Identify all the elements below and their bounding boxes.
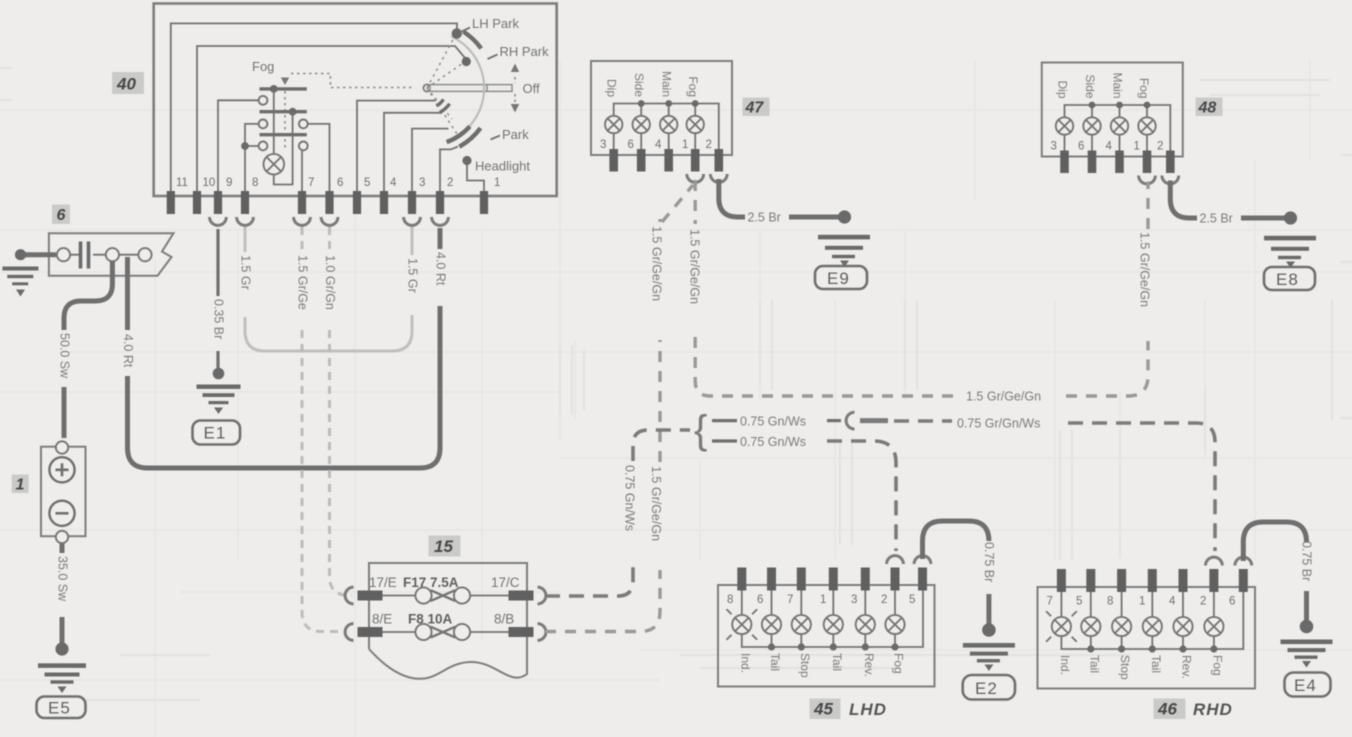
svg-text:4: 4	[1106, 141, 1113, 153]
svg-text:8: 8	[1107, 596, 1113, 608]
svg-text:4: 4	[1169, 596, 1176, 608]
label LHD	[849, 700, 887, 719]
46 indicator lamp rays	[1046, 611, 1077, 642]
wire 1.5 Gr/Ge (pin 7 to fuse 8/E)	[302, 227, 345, 632]
wire pin 11 to LH Park contact	[171, 23, 457, 191]
connector hooks at fuse box	[345, 587, 546, 640]
svg-text:7: 7	[308, 177, 314, 189]
svg-text:Dip: Dip	[1056, 80, 1070, 98]
wire pin 4 to rotary	[384, 113, 442, 191]
svg-text:6: 6	[337, 177, 343, 189]
headlamp cluster 48	[1042, 63, 1183, 157]
svg-text:Headlight: Headlight	[475, 159, 530, 174]
fuse terminal 17/C	[491, 575, 534, 601]
svg-text:1: 1	[1134, 141, 1140, 153]
45 indicator lamp rays	[727, 609, 758, 640]
rotary Off rotation arrows (dotted)	[511, 64, 519, 113]
wire label 4.0 Rt (under pin 2)	[434, 252, 448, 286]
hooks above 46 pins 2,6	[1206, 557, 1252, 565]
47 lamps Dip Side Main Fog	[605, 116, 704, 149]
rotary dotted selector rays	[427, 34, 466, 137]
svg-text:1.5 Gr: 1.5 Gr	[239, 255, 253, 290]
47 lamp function labels	[605, 71, 701, 97]
wire 1.5 Gr (pin 8 to pin 3 loop)	[245, 227, 412, 351]
wire label 1.5 Gr/Ge/Gn (horizontal)	[966, 390, 1041, 404]
svg-text:1: 1	[682, 139, 688, 151]
svg-text:6: 6	[1078, 141, 1084, 153]
svg-text:11: 11	[176, 177, 188, 189]
svg-text:Tail: Tail	[1149, 655, 1163, 673]
45 lamps	[732, 591, 904, 635]
svg-text:5: 5	[364, 177, 370, 189]
wire label 0.35 Br	[212, 299, 226, 339]
svg-text:Fog: Fog	[252, 59, 274, 74]
wire label 0.75 Gn/Ws (riser)	[623, 465, 637, 531]
svg-text:E1: E1	[204, 424, 227, 443]
46 lamp function labels	[1058, 655, 1225, 680]
hooks above 45 pins 2,5	[887, 556, 931, 564]
svg-text:1.5 Gr/Ge/Gn: 1.5 Gr/Ge/Gn	[1138, 232, 1152, 307]
svg-text:Fog: Fog	[1137, 78, 1151, 99]
wire label 0.75 Gn/Ws (lower)	[740, 435, 806, 449]
wire label 0.75 Br (right)	[1300, 541, 1314, 581]
svg-text:50.0 Sw: 50.0 Sw	[58, 333, 72, 379]
svg-text:Dip: Dip	[605, 79, 619, 97]
junction connector on upper branch	[827, 412, 888, 429]
wire label 2.5 Br (right)	[1200, 212, 1233, 226]
wire label 1.5 Gr (right)	[406, 258, 420, 293]
wire label 1.5 Gr/Ge	[296, 255, 310, 310]
wire 0.75 Gn/Ws (fuse 17/C up to brace junction)	[545, 430, 690, 596]
wire pin 1 to Headlight contact	[467, 164, 484, 191]
svg-text:40: 40	[116, 75, 136, 94]
wire pin 10 to RH Park contact	[197, 46, 465, 191]
headlamp cluster 47	[591, 61, 732, 155]
svg-text:Main: Main	[1111, 72, 1125, 98]
svg-text:0.35 Br: 0.35 Br	[212, 299, 226, 339]
label 48	[1196, 98, 1223, 117]
svg-text:3: 3	[600, 139, 606, 151]
wire pin 7 to fog switch	[301, 151, 303, 192]
wire 2.5 Br (47 pin 2 to E9)	[719, 179, 839, 217]
svg-text:7: 7	[787, 594, 793, 606]
svg-text:15: 15	[434, 537, 453, 556]
svg-text:1.5 Gr/Ge/Gn: 1.5 Gr/Ge/Gn	[649, 466, 663, 541]
svg-text:1.5 Gr/Ge/Gn: 1.5 Gr/Ge/Gn	[966, 390, 1041, 404]
fog indicator lamp	[264, 154, 285, 175]
svg-text:LH Park: LH Park	[472, 16, 519, 31]
46 lamps	[1052, 592, 1224, 636]
svg-text:45: 45	[813, 700, 833, 719]
svg-text:2: 2	[1157, 141, 1163, 153]
wire pin 8 to fog switch	[241, 124, 258, 191]
label 1	[12, 475, 29, 494]
svg-text:1.5 Gr/Ge/Gn: 1.5 Gr/Ge/Gn	[650, 226, 664, 301]
connector hooks under switch pins	[210, 217, 449, 225]
fuse terminal 17/E	[358, 575, 397, 601]
46 pin terminals 7 5 8 1 4 2 6	[1057, 569, 1248, 592]
svg-text:6: 6	[57, 207, 66, 224]
switch 40 pin terminals 11..1	[167, 191, 488, 214]
svg-text:7: 7	[1047, 596, 1053, 608]
svg-text:46: 46	[1157, 700, 1177, 719]
svg-text:3: 3	[1051, 141, 1057, 153]
45 pin numbers	[727, 594, 915, 606]
47 pin terminals 3 6 4 1 2	[609, 149, 723, 172]
rotary contact dots	[452, 28, 472, 165]
svg-text:1: 1	[820, 594, 826, 606]
svg-text:6: 6	[628, 139, 634, 151]
48 pin terminals 3 6 4 1 2	[1060, 151, 1174, 174]
wire label 4.0 Rt (left)	[121, 334, 135, 368]
wire label 1.5 Gr (left)	[239, 255, 253, 290]
svg-text:2: 2	[706, 139, 712, 151]
svg-text:1.5 Gr/Ge/Gn: 1.5 Gr/Ge/Gn	[688, 229, 702, 304]
svg-text:3: 3	[851, 594, 857, 606]
svg-text:Ind.: Ind.	[1058, 655, 1072, 675]
svg-text:0.75 Gr/Gn/Ws: 0.75 Gr/Gn/Ws	[957, 417, 1040, 431]
svg-text:Park: Park	[502, 127, 529, 142]
svg-text:F8 10A: F8 10A	[408, 612, 453, 627]
wire pin 5 to rotary	[357, 101, 436, 191]
wire 50.0 Sw	[64, 261, 112, 438]
wire label 1.5 Gr/Ge/Gn (at fuse riser)	[649, 466, 663, 541]
element bars inside 6	[81, 242, 89, 269]
48 pin numbers	[1051, 141, 1164, 153]
svg-text:Off: Off	[523, 81, 540, 96]
wire 1.5 Gr/Ge/Gn (crossover to 48 pin 1)	[1066, 182, 1148, 397]
fuse box 15	[369, 563, 527, 679]
svg-text:1.5 Gr/Ge: 1.5 Gr/Ge	[296, 255, 310, 310]
ground E9	[815, 210, 870, 289]
svg-text:{: {	[694, 408, 707, 452]
svg-text:Rev.: Rev.	[1180, 655, 1194, 679]
svg-text:8/E: 8/E	[372, 612, 392, 627]
rotary dark arc segments	[436, 32, 481, 147]
wire label 1.5 Gr/Ge/Gn (below 47)	[688, 229, 702, 304]
svg-text:E9: E9	[827, 269, 850, 288]
48 internal bus	[1065, 102, 1171, 151]
svg-text:Main: Main	[660, 71, 674, 97]
label 45	[810, 699, 841, 720]
48 lamp function labels	[1056, 72, 1152, 98]
rotary switch pivot and lever (Off position)	[423, 84, 512, 91]
svg-text:8: 8	[252, 177, 258, 189]
light switch 40	[154, 4, 557, 197]
wire 35.0 Sw	[60, 544, 65, 647]
label 6	[52, 205, 70, 225]
svg-text:17/E: 17/E	[369, 575, 397, 590]
wire pin 3 to rotary	[412, 129, 449, 191]
wire label 1.0 Gr/Gn	[323, 255, 337, 310]
wire 1.5 Gr/Ge/Gn (fuse 8/B up to 47 pin 1)	[545, 185, 693, 632]
svg-text:0.75 Gn/Ws: 0.75 Gn/Ws	[740, 435, 806, 449]
46 internal bus to pin 6	[1061, 592, 1243, 653]
rear lamp cluster 46 RHD	[1038, 587, 1256, 689]
wire label 50.0 Sw	[58, 333, 72, 379]
svg-text:Side: Side	[632, 73, 646, 97]
ground E4	[1281, 620, 1333, 697]
svg-text:Tail: Tail	[830, 653, 844, 671]
svg-text:Fog: Fog	[892, 653, 906, 674]
ground E8	[1264, 211, 1316, 290]
svg-text:0.75 Gn/Ws: 0.75 Gn/Ws	[623, 465, 637, 531]
wire 0.75 Gr/Gn/Ws (to 46 pin 2)	[894, 421, 1215, 551]
svg-text:1: 1	[16, 477, 25, 494]
fog switch mechanical dotted link	[281, 74, 412, 151]
hooks under 48 pins 1,2	[1139, 176, 1179, 184]
45 internal bus to pin 5	[742, 591, 923, 651]
svg-text:3: 3	[419, 177, 425, 189]
contact circles inside 6	[57, 248, 152, 261]
svg-text:4: 4	[655, 139, 662, 151]
svg-text:1: 1	[1139, 596, 1145, 608]
wire 0.35 Br (pin 9 to E1)	[216, 229, 219, 369]
svg-text:E5: E5	[48, 699, 71, 718]
47 internal bus	[614, 100, 719, 149]
svg-text:2: 2	[881, 594, 887, 606]
rotary position labels	[460, 16, 550, 174]
45 pin terminals 8 6 7 1 3 2 5	[737, 568, 927, 591]
svg-text:Tail: Tail	[1088, 655, 1102, 673]
fog switch pole wires	[274, 89, 293, 185]
svg-text:LHD: LHD	[849, 700, 887, 719]
wire label 0.75 Br (left)	[982, 542, 996, 582]
fuse terminal 8/E	[358, 612, 393, 638]
svg-text:5: 5	[1076, 596, 1082, 608]
wire 1.0 Gr/Gn (pin 6 to fuse 17/E)	[330, 227, 353, 596]
svg-text:E2: E2	[975, 679, 998, 698]
svg-text:Tail: Tail	[768, 653, 782, 671]
wire label 0.75 Gr/Gn/Ws	[957, 417, 1040, 431]
wire pin 2 to rotary	[440, 147, 458, 192]
fuse F8 10A	[383, 612, 509, 641]
svg-text:E8: E8	[1276, 270, 1299, 289]
fuse F17 7.5A	[383, 575, 509, 604]
svg-text:1: 1	[494, 177, 500, 189]
fog switch label	[252, 59, 274, 74]
svg-text:RH Park: RH Park	[500, 44, 550, 59]
svg-text:8: 8	[727, 594, 733, 606]
wire label 1.5 Gr/Ge/Gn (below 48)	[1138, 232, 1152, 307]
label RHD	[1193, 700, 1233, 719]
wire pin 6 to fog switch	[308, 124, 329, 191]
rotary contact arc (light)	[448, 36, 484, 141]
svg-text:47: 47	[745, 100, 765, 117]
svg-text:F17 7.5A: F17 7.5A	[403, 575, 459, 590]
svg-text:2.5 Br: 2.5 Br	[1200, 212, 1233, 226]
svg-text:17/C: 17/C	[491, 575, 520, 590]
svg-text:2: 2	[1200, 596, 1206, 608]
46 pin numbers	[1047, 596, 1236, 608]
fog switch contact circles	[259, 96, 308, 150]
svg-text:5: 5	[909, 594, 915, 606]
wire 2.5 Br (48 pin 2 to E8)	[1170, 181, 1285, 219]
wire label 0.75 Gn/Ws (upper)	[740, 415, 806, 429]
svg-text:6: 6	[757, 594, 763, 606]
svg-text:E4: E4	[1294, 676, 1317, 695]
ground E2	[963, 623, 1015, 699]
label 46	[1154, 699, 1186, 720]
label 47	[743, 98, 770, 117]
wire 0.75 Gn/Ws (lower branch to 45 pin 2)	[712, 441, 896, 551]
fuse terminal 8/B	[494, 612, 534, 638]
svg-text:48: 48	[1198, 100, 1217, 117]
wire label 1.5 Gr/Ge/Gn (upper riser)	[650, 226, 664, 301]
svg-text:1.5 Gr: 1.5 Gr	[406, 258, 420, 293]
svg-text:Stop: Stop	[798, 653, 812, 678]
wire 6 to ground	[15, 249, 56, 260]
svg-text:Side: Side	[1083, 74, 1097, 98]
svg-text:Fog: Fog	[686, 76, 700, 97]
battery 1	[41, 441, 86, 543]
svg-text:4: 4	[390, 177, 397, 189]
svg-text:6: 6	[1229, 596, 1235, 608]
wire label 2.5 Br (left)	[748, 211, 781, 225]
svg-text:RHD: RHD	[1193, 700, 1233, 719]
wire 0.75 Gn/Ws (upper branch)	[712, 419, 737, 422]
svg-text:8/B: 8/B	[494, 612, 514, 627]
wire 1.5 Gr/Ge/Gn (47 pin 1 down to crossover)	[695, 180, 960, 396]
svg-text:0.75 Br: 0.75 Br	[1300, 541, 1314, 581]
48 lamps Dip Side Main Fog	[1056, 117, 1156, 150]
connector/fuse link 6	[49, 233, 174, 276]
45 lamp function labels	[739, 653, 906, 678]
svg-text:10: 10	[203, 177, 216, 189]
label 40	[112, 72, 144, 94]
rear lamp cluster 45 LHD	[718, 585, 935, 687]
ground (left of 6)	[2, 267, 38, 297]
wire 4.0 Rt (feed from 6 to switch pin 2)	[128, 228, 441, 468]
hooks under 47 pins 1,2	[687, 174, 727, 182]
switch 40 pin numbers	[176, 177, 500, 189]
svg-text:0.75 Gn/Ws: 0.75 Gn/Ws	[740, 415, 806, 429]
svg-text:35.0 Sw: 35.0 Sw	[56, 556, 70, 602]
svg-text:Fog: Fog	[1211, 655, 1225, 676]
svg-text:Ind.: Ind.	[739, 653, 753, 673]
ground E5	[37, 642, 87, 718]
svg-text:4.0 Rt: 4.0 Rt	[434, 252, 448, 286]
svg-text:Rev.: Rev.	[862, 653, 876, 677]
fog switch contact bars	[260, 85, 307, 135]
wire 0.75 Br (46 pin 6 to E4)	[1243, 522, 1306, 621]
svg-text:2.5 Br: 2.5 Br	[748, 211, 781, 225]
svg-text:0.75 Br: 0.75 Br	[982, 542, 996, 582]
svg-text:1.0 Gr/Gn: 1.0 Gr/Gn	[323, 255, 337, 310]
wire label 35.0 Sw	[56, 556, 70, 602]
svg-text:4.0 Rt: 4.0 Rt	[121, 334, 135, 368]
svg-text:9: 9	[226, 177, 232, 189]
wire pin 9 to fog switch	[218, 100, 258, 191]
svg-text:2: 2	[447, 177, 453, 189]
brace junction	[694, 408, 707, 452]
ground E1	[193, 368, 241, 445]
svg-text:Stop: Stop	[1118, 655, 1132, 680]
47 pin numbers	[600, 139, 712, 151]
label 15	[429, 536, 461, 557]
wire 0.75 Br (45 pin 5 to E2)	[923, 521, 989, 624]
